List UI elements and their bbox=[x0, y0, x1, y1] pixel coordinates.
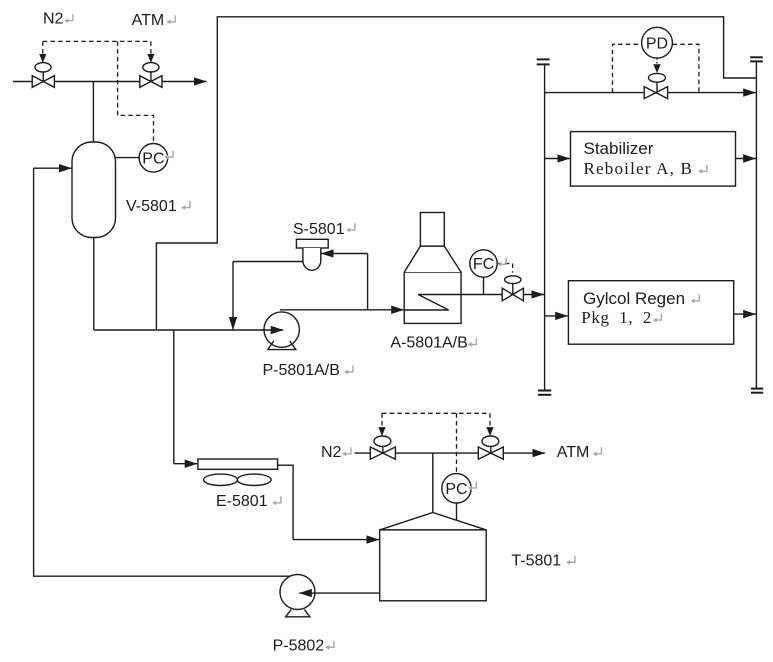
svg-text:S-5801: S-5801 bbox=[293, 221, 345, 238]
signal arrowheads onto actuators bbox=[42, 56, 44, 62]
wire: pump suction header toward P-5801A/B bbox=[94, 329, 265, 331]
box: Stabilizer Reboiler A,B bbox=[571, 132, 736, 187]
svg-text:N2: N2 bbox=[43, 11, 64, 28]
wire: Stabilizer Reboiler outlet arrow to right header bbox=[736, 158, 756, 160]
wire: lower N2 to ATM blanket line bbox=[355, 452, 546, 454]
svg-text:PC: PC bbox=[445, 481, 467, 498]
svg-text:P-5802: P-5802 bbox=[273, 637, 325, 654]
node: right header with end ticks bbox=[755, 62, 757, 389]
tank T-5801 shell bbox=[380, 530, 487, 601]
wire: S-5801 return drop with arrow onto suction header bbox=[232, 262, 234, 330]
wire: S-5801 outlet to return drop bbox=[233, 261, 303, 263]
svg-text:FC: FC bbox=[473, 256, 494, 273]
box: Gylcol Regen Pkg bbox=[568, 281, 733, 345]
wire: dashed signal drop to N2 valve actuator bbox=[42, 41, 44, 56]
valve PDV bbox=[649, 73, 666, 82]
wire: tank vent riser from blanket line to roof peak bbox=[432, 453, 434, 512]
svg-text:N2: N2 bbox=[321, 444, 342, 461]
wire: FC stem bbox=[483, 277, 485, 294]
wire: E-5801 outlet down and into T-5801 bbox=[278, 465, 294, 539]
wire: top loop from x217 across the page to right header bbox=[156, 17, 756, 330]
wire: A-5801 outlet line to FC valve and left header bbox=[461, 294, 544, 296]
vessel V-5801 bbox=[72, 142, 116, 238]
wire: dotted signal PD to actuator bbox=[656, 58, 658, 73]
instrument PC (T-5801) bbox=[442, 474, 471, 503]
wire: branch from suction header down to E-5801 bbox=[173, 330, 175, 464]
wire: dashed signal from tank PC up to header bbox=[456, 413, 458, 473]
wire: dashed signal header for tank PV valves bbox=[382, 412, 490, 414]
svg-text:Pkg 1, 2: Pkg 1, 2 bbox=[581, 308, 652, 327]
valve PV-2 (ATM vent) bbox=[150, 72, 152, 82]
pump P-5802 bbox=[280, 575, 315, 610]
instrument FC bbox=[470, 250, 497, 277]
wire: strainer branch riser from pump discharge bbox=[367, 254, 369, 310]
tank T-5801 roof bbox=[380, 513, 487, 530]
valve FV (flow control) bbox=[505, 276, 521, 284]
wire: V-5801 inlet arrow from recycle riser bbox=[34, 167, 72, 169]
svg-text:ATM: ATM bbox=[132, 12, 165, 29]
valve PV-1 (N2 makeup) bbox=[42, 72, 44, 82]
wire: Gylcol Regen outlet arrow to right header bbox=[734, 313, 756, 315]
valve PV-3 (tank N2) bbox=[374, 436, 391, 446]
wire: PD relief line from left header to right header bbox=[545, 92, 756, 94]
wire: dashed signal drop to ATM valve actuator bbox=[150, 41, 152, 56]
wire: strainer branch arrow into S-5801 dome bbox=[321, 253, 368, 255]
wire: suction arrow into P-5801A/B centre bbox=[262, 329, 283, 331]
wire: PC tap from V-5801 bbox=[116, 157, 140, 159]
wire: dashed signal box around PD valve, left side bbox=[613, 44, 642, 92]
wire: branch from vent line down into V-5801 top bbox=[92, 82, 94, 143]
wire: dashed signal drop to lower ATM valve bbox=[489, 413, 491, 429]
wire: dashed signal box around PD valve, right side bbox=[673, 44, 699, 92]
wire: T-5801 outlet into P-5802 with arrow at pump centre bbox=[299, 592, 380, 594]
instrument PC (V-5801) bbox=[139, 144, 168, 173]
svg-text:Gylcol Regen: Gylcol Regen bbox=[583, 289, 685, 308]
wire: internal baffle of A-5801 bbox=[404, 295, 461, 311]
svg-text:Reboiler A, B: Reboiler A, B bbox=[584, 159, 694, 178]
wire: top-left N2/ATM vent line bbox=[13, 81, 207, 83]
pump P-5801A/B bbox=[264, 312, 299, 347]
svg-text:A-5801A/B: A-5801A/B bbox=[390, 335, 467, 352]
instrument PD bbox=[642, 27, 673, 58]
wire: dashed signal drop to lower N2 valve bbox=[381, 413, 383, 429]
flame arrestor A-5801A/B body bbox=[404, 272, 461, 323]
strainer S-5801 bbox=[296, 239, 328, 248]
valve PV-4 (tank ATM) bbox=[482, 436, 499, 446]
wire: V-5801 bottom outlet down to pump suction header bbox=[93, 238, 95, 331]
svg-text:ATM: ATM bbox=[557, 444, 590, 461]
svg-text:V-5801: V-5801 bbox=[126, 198, 177, 215]
wire: left header inlet arrow to Stabilizer Reboiler bbox=[545, 158, 570, 160]
svg-text:E-5801: E-5801 bbox=[216, 493, 268, 510]
node: left header with end ticks bbox=[544, 65, 546, 391]
wire: E-5801 feed arrow bbox=[174, 463, 198, 465]
wire: recycle line from P-5802 up the left side to V-5801 bbox=[34, 168, 294, 576]
svg-text:Stabilizer: Stabilizer bbox=[584, 139, 654, 158]
air cooler E-5801 bbox=[198, 459, 278, 469]
wire: dashed signal header for top PV valves bbox=[43, 40, 151, 42]
svg-text:P-5801A/B: P-5801A/B bbox=[263, 362, 340, 379]
svg-text:PD: PD bbox=[646, 35, 668, 52]
wire: dashed signal FC to valve actuator bbox=[497, 264, 512, 273]
svg-text:T-5801: T-5801 bbox=[511, 553, 561, 570]
wire: PC stem onto tank roof bbox=[456, 503, 458, 522]
wire: arrow into T-5801 shell bbox=[293, 539, 379, 541]
wire: P-5801A/B discharge into A-5801A/B bbox=[280, 309, 404, 311]
wire: dashed signal from PC to top header bbox=[118, 41, 154, 143]
wire: left header inlet arrow to Gylcol Regen bbox=[545, 315, 568, 317]
svg-text:PC: PC bbox=[142, 150, 164, 167]
